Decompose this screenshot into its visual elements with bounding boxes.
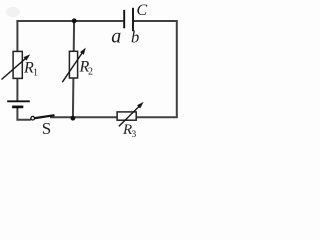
switch S [31,115,55,120]
wire: top rail left of capacitor [16,20,123,22]
svg-text:b: b [131,27,139,46]
svg-text:1: 1 [33,68,38,79]
svg-text:3: 3 [132,130,137,140]
svg-text:C: C [137,2,148,19]
wire: middle branch vertical [73,21,74,119]
wire: left branch below battery to switch [16,108,31,120]
wire: bottom rail switch to right corner [50,116,178,118]
scan smudge top-left (decorative) [6,7,20,17]
label R2 [79,58,94,77]
junction dot top (middle branch / top rail) [72,18,77,23]
wire: top rail right of capacitor [134,20,178,22]
wire: left branch vertical [16,20,18,101]
wire: right branch vertical [176,21,178,118]
label R3 [122,122,137,140]
label R1 [23,60,38,79]
battery [7,101,30,107]
resistor R1 (rheostat) [2,51,31,79]
svg-text:2: 2 [88,66,93,77]
capacitor C [124,8,133,31]
resistor R2 (rheostat) [62,48,86,83]
svg-text:S: S [42,119,51,138]
svg-text:a: a [111,26,121,48]
junction dot bottom (middle branch / bottom rail) [71,116,76,121]
resistor R3 (rheostat) [117,102,144,127]
